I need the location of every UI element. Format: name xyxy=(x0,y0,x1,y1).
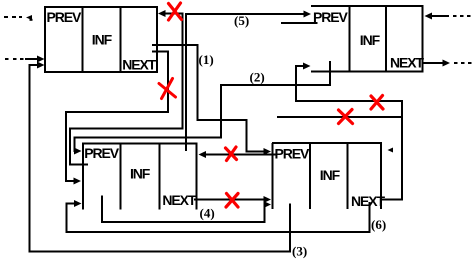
cut pointer stub under PREV of TR xyxy=(281,22,318,24)
red X mark 2 on old TL.NEXT link xyxy=(159,79,176,99)
svg-text:PREV: PREV xyxy=(47,9,82,25)
svg-text:(6): (6) xyxy=(371,217,386,232)
svg-text:NEXT: NEXT xyxy=(162,192,196,208)
svg-text:INF: INF xyxy=(320,167,341,183)
red X mark 3 on old BR.PREV link xyxy=(226,147,237,161)
wire (1): TL.NEXT -> BR xyxy=(152,45,264,152)
cut pointer stub under PREV of BL xyxy=(69,164,88,166)
node box TL (top-left list node) xyxy=(44,6,158,72)
dotted outgoing arrow from TR NEXT to rest of list xyxy=(424,62,444,64)
svg-text:NEXT: NEXT xyxy=(122,57,156,73)
svg-text:NEXT: NEXT xyxy=(390,55,424,71)
wire old BR.PREV -> BL (crossed out) xyxy=(205,154,276,156)
svg-text:PREV: PREV xyxy=(84,145,119,161)
red X mark 4 on old BL.NEXT link xyxy=(226,194,238,208)
wire (4): BL -> BR below boxes xyxy=(102,196,265,223)
wire old BL.PREV -> TL (crossed out) xyxy=(70,14,183,165)
red X mark 6 on old BR.NEXT link xyxy=(371,96,383,110)
small cut arrowhead pointing into BR right side xyxy=(388,148,394,153)
svg-text:INF: INF xyxy=(360,32,381,48)
dotted incoming arrow into TR right edge (next node PREV -> TR) xyxy=(431,15,449,17)
wire (6): BR.NEXT -> BL xyxy=(67,202,370,232)
svg-text:PREV: PREV xyxy=(313,9,348,25)
wire old BR.NEXT -> TR (crossed out) xyxy=(296,66,402,200)
node box BR (bottom-right list node, open bottom) xyxy=(272,143,382,209)
red X mark 1 on old link into TL xyxy=(169,3,182,20)
dotted continuation arrow out of TL PREV to previous part of list xyxy=(4,15,33,21)
node box TR (top-right list node, open left side) xyxy=(311,6,424,72)
cut stub wire with X (old TR.PREV remnant) xyxy=(277,116,401,118)
dotted incoming arrow into TL left edge (prev node NEXT -> TL) xyxy=(5,58,24,60)
svg-text:(2): (2) xyxy=(250,70,265,85)
wire (3): BR.PREV -> TL, around bottom and left xyxy=(30,65,291,252)
svg-text:(4): (4) xyxy=(200,206,215,221)
wire (5): BL.NEXT -> TR xyxy=(186,14,304,151)
node box BL (bottom-left list node, open bottom) xyxy=(82,144,198,210)
red X mark 5 on cut stub xyxy=(339,110,353,124)
svg-text:(5): (5) xyxy=(234,13,249,28)
svg-text:(1): (1) xyxy=(199,52,214,67)
svg-text:INF: INF xyxy=(130,165,151,181)
svg-text:PREV: PREV xyxy=(275,146,310,162)
wire old BL.NEXT -> BR (crossed out) xyxy=(194,199,264,201)
svg-text:INF: INF xyxy=(92,32,113,48)
wire (2): TR.PREV -> BL xyxy=(75,61,331,151)
wire old TL.NEXT -> BL (crossed out) xyxy=(66,52,168,182)
svg-text:NEXT: NEXT xyxy=(351,193,385,209)
svg-text:(3): (3) xyxy=(292,244,307,259)
